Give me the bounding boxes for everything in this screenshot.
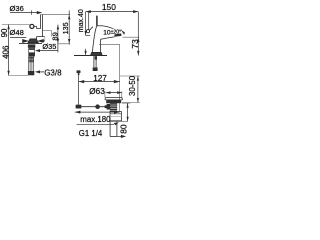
spout tip / aerator: [114, 33, 121, 36]
tail pipe lower: [110, 121, 117, 137]
leader 10±20°: [121, 30, 124, 34]
dim label 150: [102, 2, 116, 12]
dim line Ø48 with arrows at escutcheon: [10, 37, 26, 39]
escutcheon side: [91, 52, 103, 55]
svg-text:Ø48: Ø48: [10, 28, 24, 37]
svg-text:Ø63: Ø63: [89, 87, 105, 96]
dim line Ø36: [10, 12, 39, 14]
dim label Ø63: [89, 87, 105, 96]
dim label Ø36: [10, 4, 24, 13]
lever clevis at tail: [105, 105, 110, 108]
dim line 150: [86, 11, 139, 13]
extension outlet centerline down to drain: [119, 44, 121, 113]
coupling box: [110, 112, 122, 121]
dim 89 vertical: [57, 25, 59, 53]
body right edge: [99, 39, 101, 52]
extension deck to 135 dim: [48, 43, 70, 45]
svg-text:30-50: 30-50: [128, 75, 137, 96]
hose end fitting: [28, 71, 34, 75]
waste flange: [105, 97, 123, 99]
svg-text:90: 90: [0, 28, 9, 37]
text knockout: [107, 29, 125, 35]
leader arrow max.40 to deck: [85, 49, 87, 55]
extension from knob top to left dim: [2, 24, 30, 26]
body top: [97, 25, 103, 27]
label G3/8: [44, 68, 62, 77]
rod diagonal link: [89, 27, 92, 31]
extension outlet bottom: [99, 43, 120, 45]
locknut under deck: [28, 44, 35, 47]
extension left 150 dim with down arrow: [85, 12, 87, 36]
svg-text:max.180: max.180: [80, 115, 111, 124]
svg-text:G3/8: G3/8: [44, 68, 62, 77]
extension line top (to 135 dim): [41, 14, 71, 16]
lever ball joint: [95, 104, 100, 109]
dim 80 vertical: [122, 102, 130, 104]
deck line side view: [74, 55, 107, 57]
pull knob: [77, 70, 81, 73]
svg-text:80: 80: [119, 124, 129, 134]
pop-up rod ring: [86, 30, 89, 33]
dim label max.180: [80, 115, 111, 124]
dim label 127: [93, 74, 107, 83]
escutcheon dome front: [28, 39, 38, 43]
body right line: [51, 31, 53, 37]
dim label 80: [119, 124, 129, 134]
svg-text:G1 1/4: G1 1/4: [79, 129, 103, 138]
dim line max.180: [75, 111, 120, 113]
spout bottom curve: [101, 37, 115, 39]
svg-text:406: 406: [1, 45, 10, 59]
tail pipe threaded: [110, 103, 117, 111]
shank below deck side: [94, 56, 96, 68]
dim label Ø35: [42, 43, 57, 50]
lever ring knob front: [30, 24, 34, 28]
label 10±20°: [103, 29, 121, 36]
svg-text:73: 73: [130, 39, 140, 49]
handle pin side: [96, 16, 98, 26]
dim label max.40: [78, 9, 85, 32]
lever rod fitting: [76, 105, 82, 109]
dim 135 vertical: [68, 11, 70, 45]
svg-text:Ø36: Ø36: [10, 4, 24, 13]
dim 30-50 vertical: [120, 75, 140, 77]
svg-text:127: 127: [93, 74, 107, 83]
dim 73 vertical + 150 right extension: [137, 12, 139, 56]
svg-text:150: 150: [102, 2, 116, 12]
deck line left figure: [19, 43, 48, 45]
shank nut side: [93, 67, 98, 71]
supply hoses: [29, 56, 33, 71]
dim label 90: [0, 28, 9, 37]
leader G1 1/4: [117, 135, 121, 137]
left dim line 90 / 406: [8, 25, 10, 76]
dim label 30-50: [128, 75, 137, 96]
body top line: [42, 30, 51, 32]
pop-up rod side: [88, 12, 90, 29]
flange: [37, 37, 45, 41]
svg-text:89: 89: [51, 32, 60, 40]
dim line 127: [79, 81, 120, 83]
extension aerator to 73 dim: [123, 36, 140, 38]
leader line under max.180: [77, 123, 115, 125]
dim leader Ø35: [37, 50, 58, 52]
leader G3/8: [40, 71, 44, 73]
extension hose end to left dim: [9, 75, 28, 77]
lever arm front: [34, 27, 40, 29]
svg-text:Ø35: Ø35: [42, 42, 56, 51]
dim label Ø48: [10, 28, 24, 37]
svg-text:max.40: max.40: [78, 9, 85, 32]
svg-text:135: 135: [61, 22, 70, 34]
waste body dark band: [106, 100, 121, 103]
handle pin front: [41, 15, 43, 37]
svg-text:±20°: ±20°: [111, 29, 122, 35]
spout top curve: [103, 26, 121, 34]
body left edge: [92, 26, 96, 52]
lever rod: [81, 106, 109, 108]
shank threaded: [29, 48, 35, 57]
label G1 1/4: [79, 129, 103, 138]
dim label 406: [1, 45, 10, 59]
dim line Ø63: [106, 92, 122, 94]
pull rod: [78, 75, 80, 105]
